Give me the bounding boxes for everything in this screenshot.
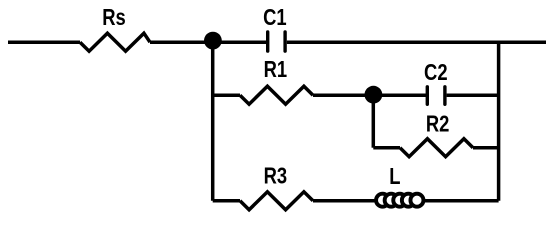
wire inductor to right rail — [424, 199, 499, 203]
wire R1 to node B and C2 — [313, 93, 426, 97]
capacitor C2 — [427, 87, 445, 105]
wire C1 to right rail — [287, 40, 546, 44]
resistor Rs — [80, 33, 150, 51]
node A junction dot — [204, 32, 222, 50]
resistor R3 — [240, 192, 313, 210]
capacitor C1 — [268, 32, 285, 51]
resistor R2 — [400, 139, 473, 157]
svg-text:L: L — [389, 164, 400, 189]
svg-text:R1: R1 — [264, 57, 288, 82]
wire R1 branch stub — [213, 93, 240, 97]
wire node B vertical — [372, 95, 376, 148]
wire left vertical from node A — [211, 42, 215, 201]
wire R2 to right rail — [473, 146, 499, 150]
wire C2 to right rail — [447, 93, 499, 97]
svg-text:R2: R2 — [426, 112, 450, 137]
inductor L — [376, 194, 423, 207]
svg-text:C1: C1 — [263, 5, 287, 30]
svg-text:Rs: Rs — [102, 5, 126, 30]
node B junction dot — [365, 86, 383, 104]
wire node A to C1 — [150, 40, 266, 44]
wire right rail vertical — [497, 42, 501, 201]
wire R2 branch stub — [373, 146, 400, 150]
svg-text:R3: R3 — [264, 164, 288, 189]
wire input left — [8, 40, 80, 44]
wire R3 to inductor — [313, 199, 376, 203]
wire R3 branch stub — [213, 199, 240, 203]
resistor R1 — [240, 86, 313, 104]
svg-text:C2: C2 — [424, 60, 448, 85]
